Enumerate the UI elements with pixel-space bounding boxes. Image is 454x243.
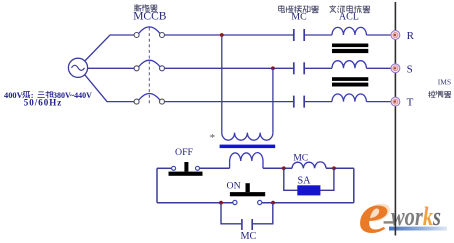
transformer T1 primary winding [222, 133, 273, 141]
transformer T1 core [220, 145, 276, 149]
wire: source to phase S [88, 67, 135, 69]
contactor MC main contact, phase T [294, 96, 304, 108]
label 电磁接触器 (magnetic contactor) [279, 6, 285, 13]
transformer T1 secondary winding [230, 153, 263, 169]
wire: breaker to contactor, phase S [165, 67, 294, 69]
svg-text:MC: MC [293, 153, 308, 164]
svg-text:SA: SA [298, 175, 312, 186]
wire: breaker to contactor, phase R [165, 34, 294, 36]
svg-text:R: R [407, 30, 415, 42]
junction node coil left [282, 166, 286, 170]
wire: contact to reactor, phase T [305, 101, 332, 103]
ACL core bars R-S [332, 44, 368, 54]
svg-text:S: S [407, 63, 413, 75]
pushbutton OFF (NC) [169, 162, 203, 176]
surge absorber SA [297, 185, 320, 195]
inductor ACL, phase S [332, 61, 366, 69]
wire: source to phase R [85, 35, 134, 61]
wire: right vertical bus to controller [394, 2, 396, 236]
pushbutton ON (NO) [230, 183, 265, 204]
wire: secondary to MC coil branch [263, 167, 292, 169]
label IMS 控制器 (controller) [438, 77, 451, 86]
wire: loop bottom right [262, 202, 354, 204]
inductor ACL, phase T [332, 94, 366, 102]
contactor MC main contact, phase S [294, 62, 304, 74]
svg-text:*: * [210, 132, 216, 144]
wire: loop top-left to OFF [157, 167, 172, 169]
svg-text:ON: ON [227, 180, 241, 191]
wire: breaker to contactor, phase T [165, 101, 294, 103]
surge absorber SA branch wire [284, 168, 334, 190]
svg-text:IMS: IMS [438, 77, 451, 86]
coil MC (contactor coil) [292, 162, 326, 168]
wire: R tap down to transformer primary [221, 35, 223, 133]
terminal S [391, 64, 400, 73]
junction node ON left [219, 201, 223, 205]
auxiliary contact MC bars [242, 219, 252, 230]
wire: S tap down to transformer primary [272, 68, 274, 132]
wire: contact to reactor, phase S [305, 67, 332, 69]
wire: OFF to secondary [200, 167, 230, 169]
wire: loop bottom left [157, 202, 233, 204]
svg-text:~440V: ~440V [70, 91, 92, 100]
junction node ON right [271, 201, 275, 205]
svg-text:MC: MC [241, 231, 257, 242]
junction node phase S tap [271, 66, 275, 70]
terminal R [391, 31, 400, 40]
wire: coil to top-right corner [326, 167, 354, 169]
terminal T [391, 97, 400, 106]
wire: reactor to terminal, phase R [366, 34, 391, 36]
breaker MCCB pole R [134, 27, 164, 38]
breaker MCCB pole S [134, 60, 164, 71]
svg-text:50/60Hz: 50/60Hz [24, 98, 63, 108]
junction node phase R tap [220, 33, 224, 37]
ACL core bars S-T [332, 77, 368, 86]
wire: reactor to terminal, phase T [366, 101, 391, 103]
wire: control loop right edge [353, 168, 355, 202]
label 交流电抗器 (AC reactor) [330, 6, 336, 13]
svg-text:MC: MC [291, 11, 306, 22]
wire: reactor to terminal, phase S [366, 67, 391, 69]
svg-text:e: e [359, 182, 389, 243]
svg-text:OFF: OFF [175, 147, 194, 158]
breaker MCCB linkage (dashed) [148, 28, 150, 104]
AC source G [68, 58, 87, 77]
wire: source to phase T [85, 75, 134, 102]
svg-text:ACL: ACL [339, 11, 359, 22]
svg-text:400V: 400V [4, 91, 23, 100]
label 400V class three-phase 380V~440V [4, 91, 92, 108]
contactor MC main contact, phase R [294, 29, 304, 41]
e-works logo [359, 182, 448, 243]
wire: control loop left edge [156, 168, 158, 202]
svg-text:T: T [407, 97, 414, 109]
label 断路器 (circuit breaker) [135, 5, 141, 12]
wire: contact to reactor, phase R [305, 34, 332, 36]
breaker MCCB pole T [134, 94, 164, 105]
inductor ACL, phase R [332, 27, 366, 35]
svg-text:MCCB: MCCB [133, 11, 167, 23]
auxiliary contact MC branch wire [221, 203, 273, 224]
junction node coil right [332, 166, 336, 170]
